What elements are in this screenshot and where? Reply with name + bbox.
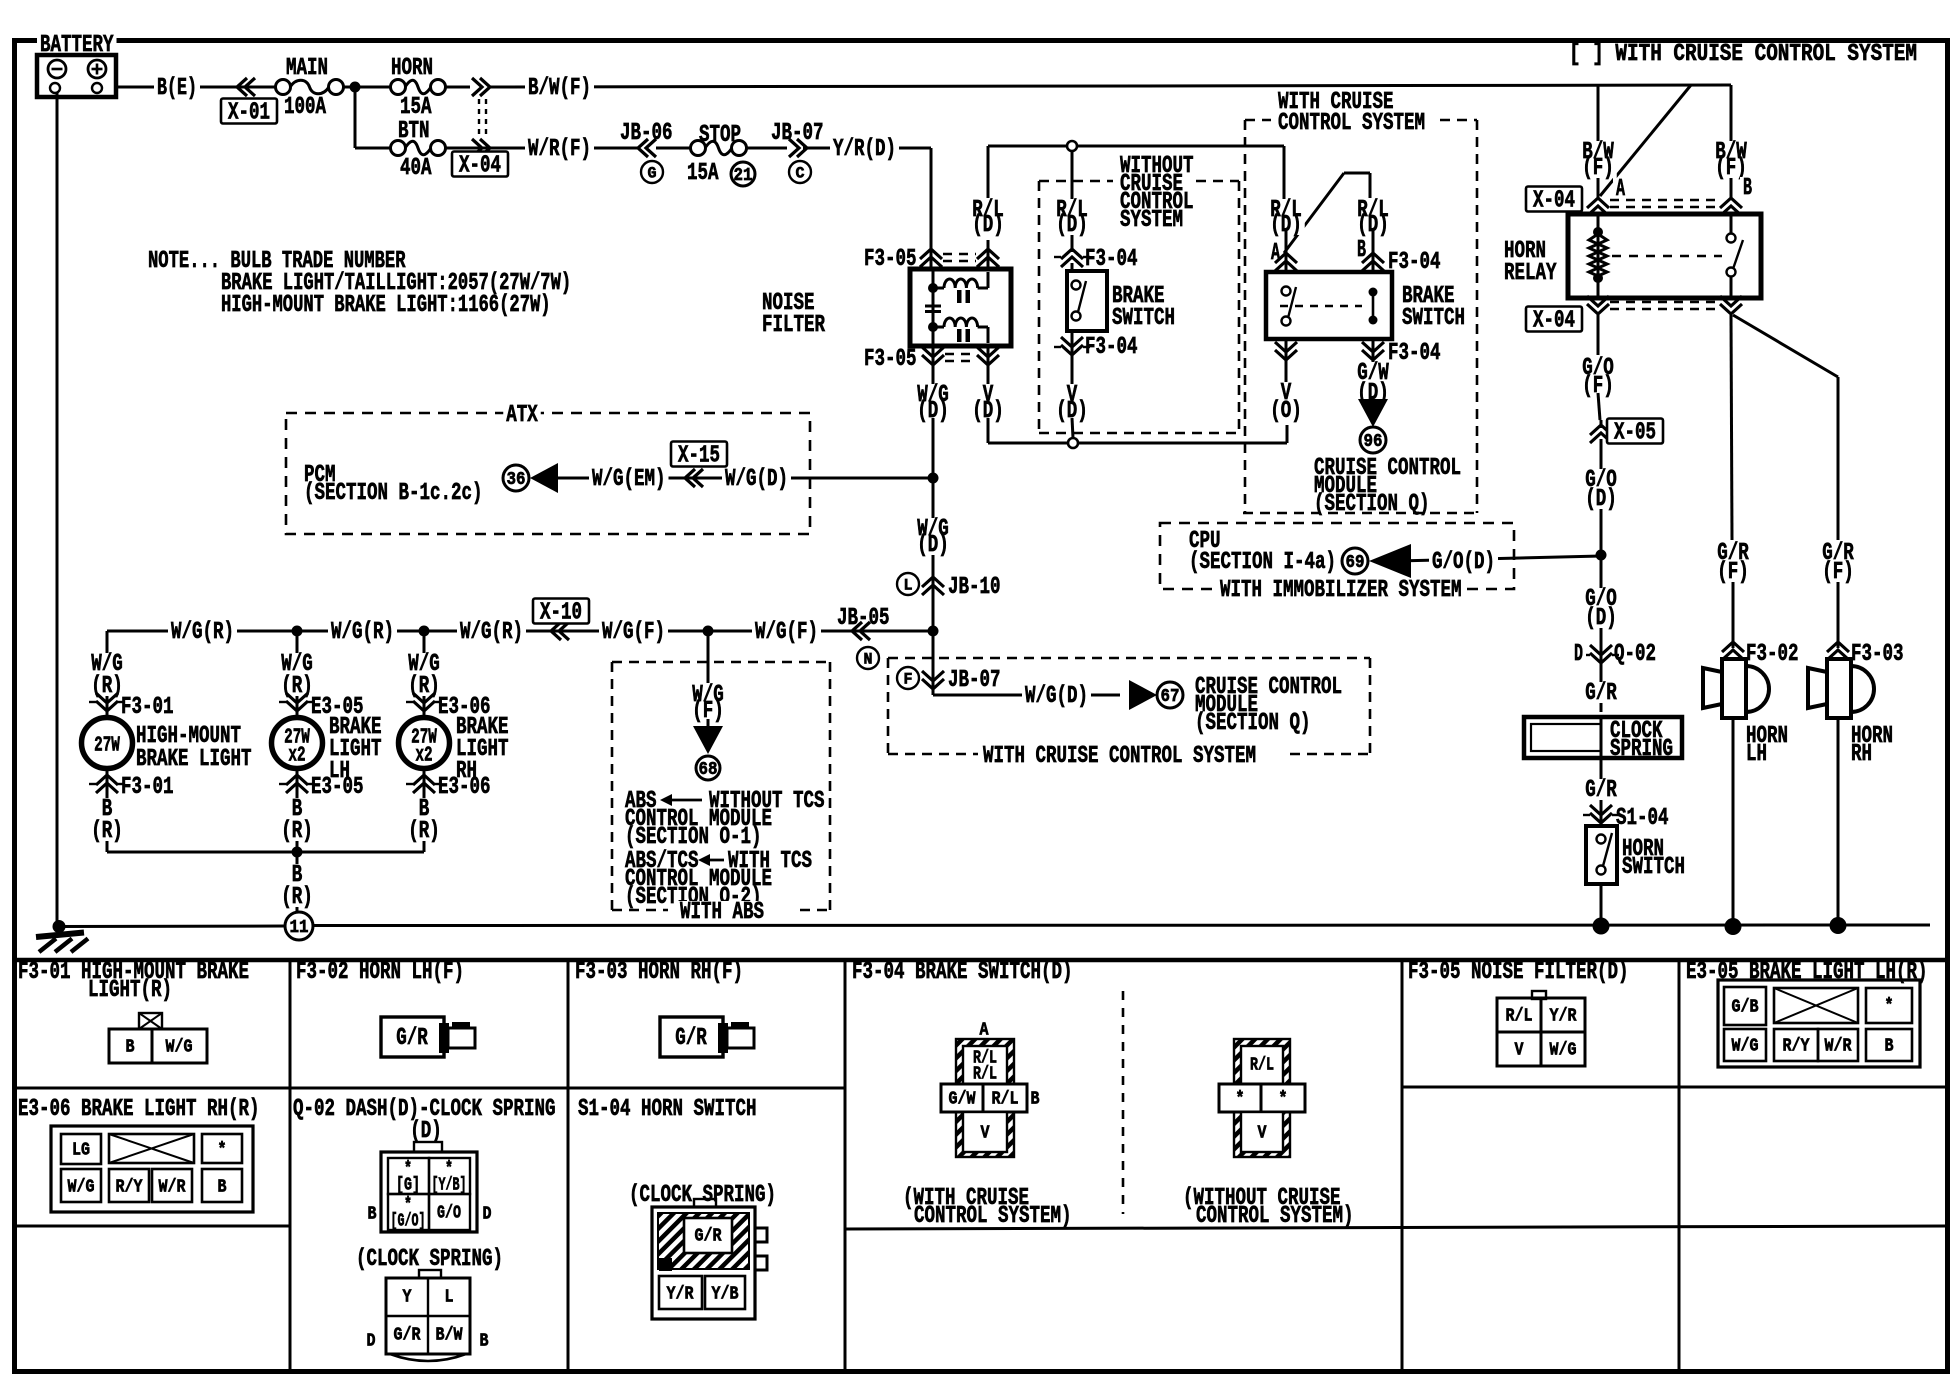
svg-text:96: 96: [1364, 432, 1383, 452]
svg-text:R/L: R/L: [992, 1089, 1019, 1109]
label V (D) without cruise: [1071, 360, 1074, 384]
table cell F3-04 dashed divider: [1122, 991, 1125, 1214]
svg-text:(D): (D): [1585, 605, 1617, 632]
fuse STOP 15A: [691, 141, 706, 156]
svg-text:*: *: [1885, 996, 1894, 1016]
svg-text:(R): (R): [408, 818, 440, 845]
svg-text:E3-06 BRAKE LIGHT RH(R): E3-06 BRAKE LIGHT RH(R): [18, 1096, 260, 1123]
svg-text:(SECTION Q): (SECTION Q): [1314, 491, 1430, 518]
connector JB-05: [860, 622, 870, 640]
label W/G(F) segment 2: [752, 621, 821, 642]
svg-text:21: 21: [734, 166, 753, 186]
svg-text:SWITCH: SWITCH: [1622, 854, 1685, 881]
svg-text:HIGH-MOUNT BRAKE LIGHT:1166(27: HIGH-MOUNT BRAKE LIGHT:1166(27W): [221, 292, 551, 319]
svg-text:SYSTEM: SYSTEM: [1120, 207, 1183, 234]
label W/G (D) mid: [914, 518, 952, 534]
svg-text:68: 68: [699, 760, 718, 780]
svg-text:11: 11: [290, 918, 309, 938]
grommet L: [897, 573, 919, 595]
label W/G(R) segment 1: [168, 621, 237, 642]
dashed box WITHOUT CRUISE CONTROL SYSTEM: [1039, 180, 1113, 183]
wire Y/R(D) to noise filter: [803, 147, 931, 150]
dashed box WITH ABS: [612, 661, 830, 664]
svg-text:B: B: [1743, 175, 1752, 202]
wire W/G(EM) to X-15 to W/G(D): [556, 477, 933, 480]
svg-text:(F): (F): [1582, 155, 1614, 182]
svg-text:RH: RH: [1851, 741, 1872, 768]
svg-text:x2: x2: [288, 744, 305, 767]
circled 68: [696, 756, 720, 780]
svg-text:LH: LH: [1746, 741, 1767, 768]
wire R/L(D) net from noise filter to brake switches: [988, 145, 1284, 148]
connector X-01: [245, 78, 255, 96]
ground node horn RH: [1830, 917, 1847, 934]
wire V (D) with-cruise to return: [1285, 362, 1288, 384]
arrow into CPU pin 69: [1369, 544, 1411, 578]
pin label B relay: [1740, 177, 1755, 198]
svg-text:L: L: [904, 577, 913, 595]
node junction brake light bus: [292, 626, 303, 637]
circled 69: [1342, 548, 1368, 574]
connector F3-05 bottom: [932, 346, 935, 384]
svg-text:*: *: [1236, 1089, 1245, 1109]
noise filter internals: [932, 269, 935, 346]
arrow into PCM pin 36: [530, 463, 558, 493]
svg-text:F3-04: F3-04: [1085, 334, 1138, 361]
connector X-04 fuse side: [472, 78, 482, 96]
wire W/G(F) to ABS: [707, 631, 710, 683]
svg-text:(R): (R): [91, 818, 123, 845]
svg-text:F3-02: F3-02: [1746, 641, 1799, 668]
wire diagonal branch to horn RH: [1733, 315, 1838, 377]
label V (D) below filter: [980, 384, 997, 400]
ground node horn LH: [1725, 918, 1742, 935]
svg-text:F3-04: F3-04: [1388, 249, 1441, 276]
wire W/G(D) to cruise module 67: [932, 686, 935, 695]
wire G/O(D) down to clock spring: [1600, 439, 1603, 712]
fuse MAIN 100A: [276, 80, 291, 95]
svg-text:R/L: R/L: [1506, 1006, 1533, 1026]
svg-text:x2: x2: [415, 744, 432, 767]
svg-text:FILTER: FILTER: [762, 312, 825, 339]
connector drawing Q-02 clock spring side: [419, 1270, 441, 1278]
svg-text:G/O(D): G/O(D): [1432, 549, 1495, 576]
svg-text:W/R(F): W/R(F): [528, 136, 591, 163]
grommet F: [897, 667, 919, 689]
svg-text:BRAKE LIGHT: BRAKE LIGHT: [136, 746, 252, 773]
wire to STOP fuse: [656, 147, 691, 150]
svg-text:(R): (R): [281, 673, 313, 700]
label WITH CRUISE CONTROL SYSTEM: [1275, 91, 1397, 112]
svg-text:MAIN: MAIN: [286, 55, 328, 82]
ground symbol: [36, 933, 84, 938]
svg-text:B/W: B/W: [436, 1325, 463, 1345]
label WITH ABS: [677, 901, 767, 922]
svg-text:W/G: W/G: [68, 1177, 95, 1197]
svg-text:W/R: W/R: [159, 1177, 186, 1197]
svg-text:LG: LG: [72, 1140, 90, 1160]
svg-text:WITH CRUISE CONTROL SYSTEM: WITH CRUISE CONTROL SYSTEM: [983, 743, 1256, 770]
wire segment HORN fuse to X-04: [445, 86, 470, 89]
node R/L junction circle: [1067, 141, 1077, 151]
wire stubs into brake switch: [1285, 230, 1288, 272]
svg-text:[G]: [G]: [396, 1175, 420, 1195]
svg-text:(R): (R): [408, 673, 440, 700]
connector drawing E3-06: [51, 1126, 253, 1212]
svg-text:L: L: [445, 1287, 454, 1307]
horn relay coil: [1597, 214, 1600, 298]
svg-text:(R): (R): [281, 818, 313, 845]
label R/L (D) without-cruise: [1053, 199, 1091, 214]
svg-text:(SECTION O-1): (SECTION O-1): [625, 824, 762, 851]
svg-text:X-15: X-15: [678, 443, 720, 470]
svg-text:R/L: R/L: [973, 1064, 997, 1084]
connector drawing E3-05: [1718, 980, 1920, 1067]
svg-text:W/R: W/R: [1825, 1036, 1852, 1056]
dashed box WITH CRUISE CONTROL SYSTEM (JB-07): [888, 657, 1370, 660]
svg-text:JB-06: JB-06: [620, 120, 673, 147]
svg-text:JB-07: JB-07: [771, 120, 824, 147]
svg-text:G/R: G/R: [396, 1025, 428, 1052]
svg-text:JB-05: JB-05: [837, 605, 890, 632]
dashed box ATX: [286, 413, 810, 534]
svg-text:(O): (O): [1270, 398, 1302, 425]
horn switch: [1586, 826, 1617, 884]
svg-text:S1-04 HORN SWITCH: S1-04 HORN SWITCH: [578, 1096, 757, 1123]
svg-text:(R): (R): [91, 673, 123, 700]
wire B/W(F) right relay lead: [1730, 85, 1733, 198]
connector F3-02: [1722, 642, 1744, 652]
svg-text:B: B: [368, 1204, 377, 1224]
svg-text:D: D: [367, 1331, 376, 1351]
wire horn LH to ground: [1732, 718, 1735, 926]
svg-text:STOP: STOP: [699, 122, 741, 149]
connector X-15: [693, 469, 703, 487]
label R/L (D) with-cruise A: [1267, 199, 1305, 214]
connector drawing F3-01: [139, 1013, 162, 1029]
svg-text:W/G: W/G: [1732, 1036, 1759, 1056]
svg-text:F3-01: F3-01: [121, 774, 174, 801]
circled 36: [503, 465, 529, 491]
svg-text:JB-10: JB-10: [948, 574, 1001, 601]
grommet G: [641, 161, 663, 183]
svg-text:F3-04: F3-04: [1388, 340, 1441, 367]
svg-text:N: N: [864, 651, 873, 669]
table grid: [12, 958, 1948, 963]
brake switch (with cruise): [1266, 272, 1392, 339]
svg-text:F3-05 NOISE FILTER(D): F3-05 NOISE FILTER(D): [1408, 959, 1629, 986]
svg-text:(F): (F): [1822, 559, 1854, 586]
svg-text:F3-05: F3-05: [864, 346, 917, 373]
svg-text:G/R: G/R: [1585, 777, 1617, 804]
svg-text:D: D: [1574, 641, 1583, 668]
wire B/W(F) left relay lead: [1597, 85, 1600, 198]
svg-text:(SECTION B-1c.2c): (SECTION B-1c.2c): [304, 480, 483, 507]
wire STOP fuse to JB-07: [746, 147, 787, 150]
label W/G(F) segment 1: [599, 621, 668, 642]
svg-text:G/R: G/R: [394, 1325, 421, 1345]
svg-text:C: C: [796, 165, 805, 183]
svg-text:X-04: X-04: [459, 153, 501, 180]
svg-text:40A: 40A: [400, 155, 432, 182]
svg-text:CONTROL SYSTEM): CONTROL SYSTEM): [1196, 1203, 1354, 1230]
pin label A relay: [1613, 178, 1628, 199]
clock spring box: [1524, 717, 1682, 758]
svg-text:SPRING: SPRING: [1610, 736, 1673, 763]
pin label B: [1354, 239, 1369, 260]
wire G/O(D) CPU to horn feed: [1395, 556, 1601, 561]
connector X-04 above relay: [1587, 198, 1609, 208]
pin label A: [1268, 242, 1283, 263]
svg-text:G/R: G/R: [1585, 680, 1617, 707]
svg-text:F3-03 HORN RH(F): F3-03 HORN RH(F): [575, 959, 743, 986]
svg-text:[Y/B]: [Y/B]: [432, 1175, 467, 1195]
svg-text:R/L: R/L: [1250, 1055, 1274, 1075]
svg-text:F3-01: F3-01: [121, 694, 174, 721]
svg-text:*: *: [218, 1140, 227, 1160]
svg-text:V: V: [981, 1123, 990, 1143]
svg-text:Y: Y: [403, 1287, 412, 1307]
svg-text:27W: 27W: [94, 734, 120, 757]
svg-text:B(E): B(E): [157, 75, 197, 102]
connector F3-03: [1827, 642, 1849, 652]
svg-text:G/R: G/R: [675, 1025, 707, 1052]
connector F3-04 bottom (without cruise): [1071, 331, 1074, 360]
svg-text:X-04: X-04: [1533, 188, 1575, 215]
battery BATTERY: [37, 34, 117, 55]
svg-text:JB-07: JB-07: [948, 667, 1001, 694]
svg-text:Y/R(D): Y/R(D): [833, 136, 896, 163]
connector Q-02: [1590, 653, 1612, 663]
wire horn switch to ground: [1600, 884, 1603, 926]
svg-text:R/Y: R/Y: [116, 1177, 143, 1197]
label WITH IMMOBILIZER SYSTEM: [1217, 579, 1465, 600]
svg-text:B: B: [480, 1331, 489, 1351]
wire W/G(R) drop + bulb brake light LH E3-05: [296, 631, 299, 719]
wire V(D) return line: [987, 418, 990, 443]
svg-text:X-01: X-01: [228, 100, 270, 127]
svg-text:W/G(R): W/G(R): [331, 619, 394, 646]
svg-text:X-04: X-04: [1533, 308, 1575, 335]
label R/L (D) filter: [969, 199, 1007, 214]
svg-text:Y/B: Y/B: [712, 1284, 739, 1304]
svg-text:V: V: [1515, 1040, 1524, 1060]
svg-text:(SECTION Q): (SECTION Q): [1195, 710, 1311, 737]
svg-text:(D): (D): [972, 212, 1004, 239]
fuse BTN 40A: [391, 141, 406, 156]
svg-text:67: 67: [1161, 687, 1180, 707]
label W/G(R) segment 3: [457, 621, 526, 642]
brake switch (without cruise): [1067, 271, 1107, 331]
svg-text:X-05: X-05: [1614, 420, 1656, 447]
label G/R (F) horn LH: [1714, 542, 1752, 561]
svg-text:ATX: ATX: [506, 402, 538, 429]
svg-text:W/G(R): W/G(R): [460, 619, 523, 646]
svg-text:15A: 15A: [400, 94, 432, 121]
svg-text:B: B: [218, 1177, 227, 1197]
svg-text:V: V: [1258, 1123, 1267, 1143]
wire B(R) to ground point 11: [296, 852, 299, 912]
circled 11 ground point: [285, 912, 313, 940]
label WITHOUT CRUISE CONTROL SYSTEM: [1117, 155, 1197, 176]
svg-text:F3-04 BRAKE SWITCH(D): F3-04 BRAKE SWITCH(D): [852, 959, 1073, 986]
svg-text:Y/R: Y/R: [1550, 1006, 1577, 1026]
connector F3-04 bottom (with cruise): [1285, 339, 1288, 362]
connector X-10: [559, 622, 569, 640]
arrow to cruise control module pin 96: [1372, 400, 1375, 402]
svg-text:[G/O]: [G/O]: [391, 1211, 426, 1231]
svg-text:15A: 15A: [687, 160, 719, 187]
svg-text:R/Y: R/Y: [1783, 1036, 1810, 1056]
connector F3-04 top (with cruise): [1275, 253, 1297, 263]
svg-text:(D): (D): [1585, 486, 1617, 513]
wire branch to BTN fuse: [354, 87, 357, 148]
relay internal dashed link: [1612, 255, 1722, 257]
circled 96: [1360, 427, 1386, 453]
connector drawing S1-04: [694, 1199, 716, 1207]
svg-text:CONTROL SYSTEM: CONTROL SYSTEM: [1278, 110, 1425, 137]
connector F3-04 top (without cruise): [1061, 249, 1083, 259]
svg-text:G/R: G/R: [695, 1226, 722, 1246]
svg-text:WITH ABS: WITH ABS: [680, 899, 764, 926]
svg-text:(D): (D): [1056, 212, 1088, 239]
svg-text:[ ] WITH CRUISE CONTROL SYSTEM: [ ] WITH CRUISE CONTROL SYSTEM: [1569, 41, 1917, 68]
horn relay contact: [1730, 214, 1733, 234]
svg-text:WITH IMMOBILIZER SYSTEM: WITH IMMOBILIZER SYSTEM: [1220, 577, 1462, 604]
svg-text:W/G(EM): W/G(EM): [592, 466, 666, 493]
svg-text:B/W(F): B/W(F): [528, 75, 591, 102]
svg-text:LIGHT(R): LIGHT(R): [88, 977, 172, 1004]
ground node horn switch: [1593, 918, 1610, 935]
label G/W (D): [1354, 362, 1392, 382]
arrow to ABS pin 68: [693, 726, 723, 754]
grommet N: [857, 647, 879, 669]
connector X-04 below relay: [1587, 304, 1609, 314]
connector drawing Q-02 dash side: [414, 1142, 442, 1152]
svg-text:F: F: [904, 671, 913, 689]
wire branch to B pole: [1284, 173, 1344, 253]
circled 67: [1157, 682, 1183, 708]
wire W/R(F) BTN fuse to JB-06: [445, 147, 640, 150]
wire to horn RH: [1837, 377, 1840, 540]
wire segment MAIN fuse to HORN fuse: [343, 86, 391, 89]
connector F3-05 top: [930, 240, 933, 269]
svg-text:W/G: W/G: [166, 1037, 193, 1057]
svg-text:G/B: G/B: [1732, 997, 1759, 1017]
svg-text:D: D: [483, 1204, 492, 1224]
svg-text:(F): (F): [1717, 559, 1749, 586]
connector JB-07: [789, 139, 799, 157]
dashed box WITH CRUISE CONTROL SYSTEM (brake switch): [1245, 119, 1271, 122]
wire W/G(R) drop + bulb high-mount brake light F3-01: [106, 631, 109, 719]
svg-text:A: A: [980, 1020, 989, 1040]
svg-text:(R): (R): [281, 884, 313, 911]
horn RH symbol: [1837, 659, 1840, 663]
ground node battery: [53, 920, 66, 933]
svg-text:69: 69: [1346, 553, 1365, 573]
circled 21: [731, 162, 755, 186]
svg-text:W/G: W/G: [1550, 1040, 1577, 1060]
wire branch diagonal to relay coil A: [1600, 85, 1691, 196]
connector drawing F3-02 terminal: [381, 1017, 444, 1057]
node V return junction circle: [1068, 438, 1078, 448]
wire W/G(R) drop + bulb brake light RH E3-06: [423, 631, 426, 719]
svg-text:S1-04: S1-04: [1616, 805, 1669, 832]
connector drawing F3-03 terminal: [660, 1017, 723, 1057]
svg-text:(CLOCK SPRING): (CLOCK SPRING): [629, 1182, 776, 1209]
svg-text:F3-04: F3-04: [1085, 246, 1138, 273]
battery negative wire to ground: [56, 93, 59, 926]
svg-text:W/G(D): W/G(D): [725, 466, 788, 493]
svg-text:CONTROL SYSTEM): CONTROL SYSTEM): [914, 1203, 1072, 1230]
svg-text:W/G(F): W/G(F): [602, 619, 665, 646]
svg-text:HORN: HORN: [391, 55, 433, 82]
fuse HORN 15A: [391, 80, 406, 95]
svg-text:X-10: X-10: [540, 600, 582, 627]
svg-text:36: 36: [507, 470, 526, 490]
wire G/R clock spring to horn switch: [1600, 758, 1603, 826]
wire B/W(F) from X-04 to horn relay: [488, 85, 1731, 87]
grommet C: [789, 161, 811, 183]
label G/R (F) horn RH: [1819, 542, 1857, 561]
svg-text:G: G: [648, 165, 657, 183]
node G/O junction to CPU: [1596, 550, 1607, 561]
connector S1-04: [1590, 813, 1612, 823]
brake light bus wire W/G: [107, 630, 933, 633]
svg-text:G/O: G/O: [437, 1203, 461, 1223]
wire W/G(D) main vertical: [932, 418, 935, 695]
svg-text:RH: RH: [456, 758, 477, 785]
wire G/O(F) relay to X-05: [1597, 315, 1600, 355]
svg-text:F3-02 HORN LH(F): F3-02 HORN LH(F): [296, 959, 464, 986]
svg-text:LH: LH: [329, 758, 350, 785]
svg-text:Q-02: Q-02: [1614, 641, 1656, 668]
label R/L (D) with-cruise B: [1354, 199, 1392, 214]
svg-text:W/G(R): W/G(R): [171, 619, 234, 646]
svg-text:W/G(F): W/G(F): [755, 619, 818, 646]
noise filter box: [910, 269, 1011, 346]
horn LH symbol: [1732, 659, 1735, 663]
svg-text:*: *: [1279, 1089, 1288, 1109]
svg-text:SWITCH: SWITCH: [1112, 305, 1175, 332]
svg-text:SWITCH: SWITCH: [1402, 305, 1465, 332]
connector X-05: [1590, 425, 1612, 435]
wire horn RH to ground: [1837, 718, 1840, 926]
svg-text:100A: 100A: [284, 94, 326, 121]
horn relay box: [1568, 214, 1761, 298]
dashed box WITH IMMOBILIZER SYSTEM: [1160, 523, 1514, 589]
svg-text:W/G(D): W/G(D): [1025, 683, 1088, 710]
connector drawing F3-05: [1532, 991, 1546, 999]
svg-text:BTN: BTN: [398, 118, 430, 145]
brake light return bus B(R): [107, 851, 424, 854]
connector JB-06: [646, 139, 656, 157]
svg-text:(D): (D): [917, 532, 949, 559]
svg-text:RELAY: RELAY: [1504, 260, 1557, 287]
svg-text:F3-03: F3-03: [1851, 641, 1904, 668]
wire relay output to horn LH: [1731, 315, 1732, 540]
svg-text:B: B: [1885, 1036, 1894, 1056]
connector JB-10: [922, 577, 944, 587]
svg-text:B: B: [1031, 1089, 1040, 1109]
connector JB-07 lower: [922, 679, 944, 689]
svg-text:B: B: [126, 1037, 135, 1057]
label G/R above clock spring: [1582, 682, 1620, 703]
label W/G (D) below filter: [914, 384, 952, 400]
junction node fuse feed: [350, 82, 361, 93]
svg-text:G/W: G/W: [949, 1089, 976, 1109]
connector drawing F3-04 without cruise: [1219, 1039, 1305, 1157]
